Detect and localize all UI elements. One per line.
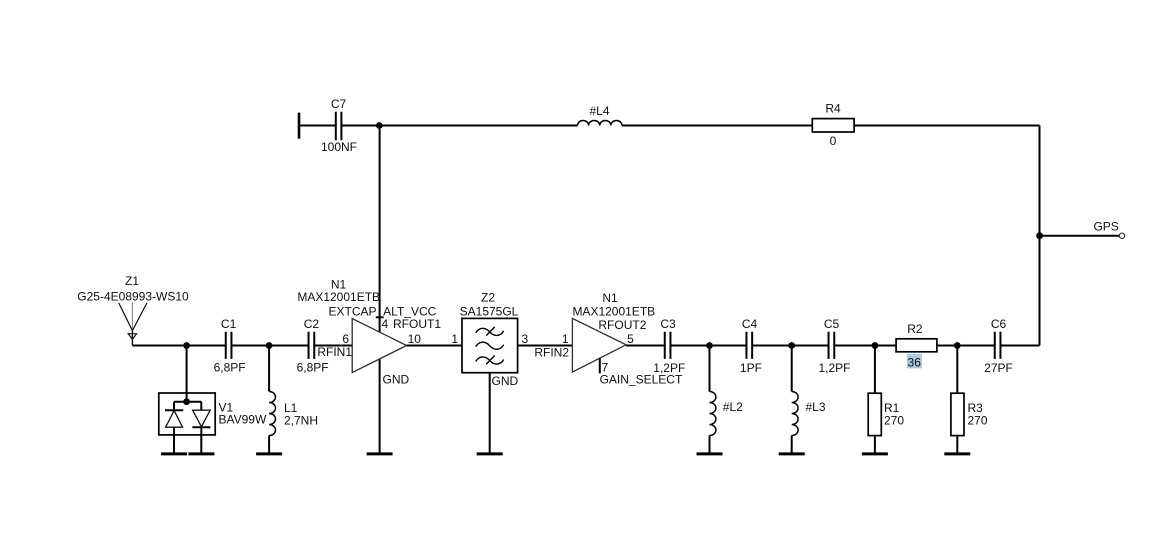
svg-text:R2: R2 bbox=[907, 322, 923, 336]
svg-text:2,7NH: 2,7NH bbox=[284, 414, 318, 428]
svg-text:1: 1 bbox=[451, 332, 458, 346]
svg-text:0: 0 bbox=[830, 134, 837, 148]
svg-text:R4: R4 bbox=[825, 102, 841, 116]
svg-text:C6: C6 bbox=[991, 317, 1007, 331]
svg-text:C5: C5 bbox=[824, 317, 840, 331]
svg-text:GND: GND bbox=[383, 372, 410, 386]
svg-text:#L4: #L4 bbox=[589, 104, 609, 118]
svg-text:#L3: #L3 bbox=[806, 400, 826, 414]
svg-text:270: 270 bbox=[884, 414, 904, 428]
svg-text:Z1: Z1 bbox=[125, 274, 139, 288]
svg-text:MAX12001ETB: MAX12001ETB bbox=[572, 305, 655, 319]
svg-text:C7: C7 bbox=[331, 97, 347, 111]
svg-text:RFIN1: RFIN1 bbox=[317, 345, 352, 359]
svg-text:3: 3 bbox=[522, 332, 529, 346]
svg-text:270: 270 bbox=[968, 414, 988, 428]
svg-text:C1: C1 bbox=[221, 317, 237, 331]
svg-text:C2: C2 bbox=[304, 317, 320, 331]
svg-text:MAX12001ETB: MAX12001ETB bbox=[297, 290, 380, 304]
svg-text:10: 10 bbox=[408, 332, 422, 346]
svg-text:RFOUT1: RFOUT1 bbox=[393, 317, 441, 331]
svg-text:1: 1 bbox=[562, 332, 569, 346]
svg-text:C3: C3 bbox=[660, 317, 676, 331]
svg-text:Z2: Z2 bbox=[481, 290, 495, 304]
svg-text:6: 6 bbox=[342, 332, 349, 346]
svg-text:6,8PF: 6,8PF bbox=[214, 361, 246, 375]
svg-text:RFIN2: RFIN2 bbox=[534, 345, 569, 359]
svg-text:SA1575GL: SA1575GL bbox=[460, 304, 519, 318]
svg-text:1,2PF: 1,2PF bbox=[818, 361, 850, 375]
svg-text:BAV99W: BAV99W bbox=[219, 413, 267, 427]
svg-text:GPS: GPS bbox=[1093, 220, 1118, 234]
svg-text:4: 4 bbox=[382, 317, 389, 331]
svg-text:GND: GND bbox=[492, 374, 519, 388]
svg-text:36: 36 bbox=[908, 355, 922, 369]
svg-text:G25-4E08993-WS10: G25-4E08993-WS10 bbox=[77, 289, 189, 303]
svg-text:N1: N1 bbox=[602, 291, 618, 305]
svg-text:#L2: #L2 bbox=[723, 400, 743, 414]
svg-text:5: 5 bbox=[627, 332, 634, 346]
svg-text:6,8PF: 6,8PF bbox=[297, 361, 329, 375]
svg-text:100NF: 100NF bbox=[321, 140, 357, 154]
svg-text:C4: C4 bbox=[742, 317, 758, 331]
svg-text:RFOUT2: RFOUT2 bbox=[598, 318, 646, 332]
svg-text:GAIN_SELECT: GAIN_SELECT bbox=[600, 372, 683, 386]
svg-text:27PF: 27PF bbox=[984, 361, 1013, 375]
svg-text:1PF: 1PF bbox=[740, 361, 762, 375]
